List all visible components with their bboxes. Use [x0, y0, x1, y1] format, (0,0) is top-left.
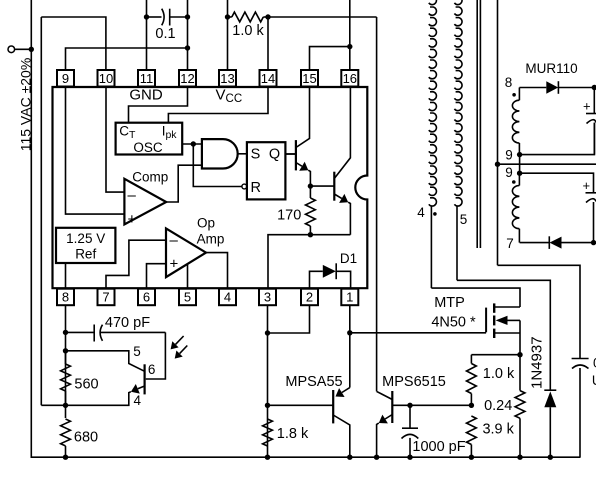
comparator Comp: [124, 179, 166, 225]
wire pin9 to comp+: [66, 86, 125, 214]
svg-text:4: 4: [224, 290, 231, 305]
wire pin4 winding to drain: [431, 288, 520, 307]
wire pin8 column: [63, 305, 68, 418]
resistor 170: [306, 186, 316, 235]
transistor MPS6515 Q5: [374, 391, 410, 460]
wire output common: [498, 163, 596, 165]
svg-text:8: 8: [505, 75, 513, 90]
transistor Q1: [285, 86, 310, 186]
wire pin1 column: [347, 305, 352, 335]
svg-text:13: 13: [220, 71, 234, 86]
svg-text:1N4937: 1N4937: [529, 336, 546, 389]
svg-text:1.25 V: 1.25 V: [66, 231, 105, 246]
svg-text:6: 6: [148, 362, 156, 377]
label MPSA55: [285, 374, 342, 390]
label D1: [340, 251, 357, 266]
svg-text:–: –: [128, 187, 137, 204]
svg-text:5: 5: [184, 290, 191, 305]
svg-text:4N50 *: 4N50 *: [431, 315, 476, 331]
svg-text:10: 10: [99, 71, 113, 86]
wire pin6 to opamp+: [147, 264, 167, 289]
node phase dot pin8: [512, 93, 516, 97]
pin 14: [260, 70, 277, 87]
label Q: [269, 147, 280, 163]
light arrow 1: [171, 336, 184, 349]
light arrow 2: [175, 346, 188, 359]
pin 10: [98, 70, 115, 87]
svg-text:6: 6: [143, 290, 150, 305]
svg-text:Q: Q: [269, 147, 280, 163]
svg-text:GND: GND: [129, 87, 163, 104]
wire output2 bottom: [520, 242, 549, 244]
label 0.1: [155, 26, 175, 42]
svg-text:+: +: [583, 178, 591, 193]
wire right column x377: [376, 17, 378, 391]
label opto 6: [148, 362, 156, 377]
OSC block: [116, 123, 183, 155]
svg-text:1.0 k: 1.0 k: [483, 366, 515, 382]
svg-text:9: 9: [62, 71, 69, 86]
transformer core: [477, 0, 480, 248]
node junction 9 lower: [517, 171, 522, 176]
wire pin13 column: [225, 0, 230, 70]
node input terminal 115 VAC: [8, 46, 34, 53]
transformer primary winding pin4: [429, 0, 437, 288]
pin 6: [138, 289, 155, 306]
label plus C2: [583, 178, 591, 193]
transistor MTP4N50 MOSFET Q3: [486, 303, 520, 354]
wire pin2 hook: [268, 305, 310, 333]
diode 1N4937: [544, 390, 556, 460]
label 7: [506, 236, 514, 251]
pin 8: [57, 289, 74, 306]
label 680: [74, 430, 98, 446]
wire pin12 column: [185, 0, 190, 70]
svg-text:16: 16: [343, 71, 357, 86]
node divider junction: [469, 403, 474, 408]
wire 9 to cap1 bottom: [520, 123, 595, 155]
capacitor 470 pF: [66, 325, 166, 342]
svg-text:Comp: Comp: [132, 169, 168, 184]
wire top to pin10: [41, 17, 106, 70]
svg-text:1.8 k: 1.8 k: [277, 426, 309, 442]
label R: [251, 180, 261, 196]
wire pin14 column: [267, 17, 269, 70]
svg-text:170: 170: [277, 208, 301, 224]
diode output2: [549, 236, 596, 249]
transistor optocoupler Q6: [66, 351, 145, 406]
label 9 lower: [505, 165, 513, 180]
label comp minus: [128, 187, 137, 204]
AND gate U1: [202, 139, 238, 168]
capacitor C3: [572, 359, 589, 458]
pin 16: [341, 70, 358, 87]
diode D1: [310, 263, 351, 288]
wire left rail: [30, 0, 32, 457]
wire comp out to AND: [166, 165, 202, 202]
svg-text:MTP: MTP: [434, 295, 465, 311]
resistor 3.9 k: [467, 416, 477, 460]
label 1.0 k: [232, 23, 264, 39]
wire top rail right: [268, 16, 377, 18]
svg-text:2: 2: [306, 290, 313, 305]
pin 15: [301, 70, 318, 87]
transformer primary winding pin5: [454, 0, 462, 280]
transformer secondary winding 8-9: [512, 88, 519, 155]
capacitor 1000 pF: [402, 405, 419, 460]
wire 9 to cap2 top: [520, 173, 594, 192]
svg-text:4: 4: [134, 393, 142, 408]
pin 1: [341, 289, 358, 306]
label 115 VAC ±20%: [18, 58, 34, 152]
label GND: [129, 87, 163, 104]
transistor Q2: [310, 86, 350, 235]
transistor MPSA55 Q4: [268, 333, 353, 460]
label 1N4937: [529, 336, 546, 389]
svg-text:3.9 k: 3.9 k: [482, 422, 514, 438]
svg-text:S: S: [251, 147, 261, 163]
wire Q out: [285, 153, 296, 155]
svg-text:MUR110: MUR110: [525, 61, 577, 76]
label CT: [119, 123, 136, 141]
svg-text:MPS6515: MPS6515: [382, 374, 446, 390]
resistor 1.8 k: [263, 419, 273, 446]
wire pin5 winding to 1N4937: [457, 280, 550, 390]
svg-text:11: 11: [140, 71, 154, 86]
label 560: [74, 377, 98, 393]
label 470 pF: [105, 315, 150, 331]
resistor 1.0 k (pin13-pin14): [228, 12, 271, 22]
resistor 1.0 k sense: [467, 355, 477, 406]
IC body (uA78S40): [53, 87, 368, 288]
wire secondary common rail: [495, 0, 500, 265]
svg-text:0.1: 0.1: [155, 26, 175, 42]
label opto 4: [134, 393, 142, 408]
label Ref: [75, 247, 96, 262]
label plus C1: [583, 99, 591, 114]
svg-text:0.24: 0.24: [484, 398, 512, 414]
label 8: [505, 75, 513, 90]
svg-text:15: 15: [302, 71, 316, 86]
label 1.8 k: [277, 426, 309, 442]
wire base to divider: [407, 403, 471, 408]
svg-text:Amp: Amp: [197, 232, 225, 247]
label MTP: [434, 295, 465, 311]
svg-text:R: R: [251, 180, 261, 196]
svg-text:7: 7: [506, 236, 514, 251]
label opto 5: [133, 344, 141, 359]
svg-text:4: 4: [417, 205, 425, 220]
svg-text:470 pF: 470 pF: [105, 315, 150, 331]
svg-text:Op: Op: [197, 216, 215, 231]
wire feedback rail: [40, 17, 42, 405]
svg-text:9: 9: [505, 148, 513, 163]
wire AND out: [238, 153, 247, 155]
diode MUR110: [546, 81, 558, 94]
wire 470pF to opto base: [146, 332, 166, 379]
op-amp Op Amp: [166, 228, 206, 277]
label 4N50 *: [431, 315, 476, 331]
wire OSC out: [182, 141, 202, 146]
label 170: [277, 208, 301, 224]
svg-text:–: –: [170, 232, 179, 249]
pin 13: [219, 70, 236, 87]
wire OSC to R: [193, 144, 242, 187]
wire pin15 hook: [310, 44, 353, 70]
svg-text:+: +: [170, 256, 179, 273]
svg-text:1.0 k: 1.0 k: [232, 23, 264, 39]
pin 5: [179, 289, 196, 306]
label C3 partial: [592, 356, 596, 389]
label comp plus: [128, 211, 137, 228]
node phase dot 9 lower: [512, 180, 516, 184]
wire emitter bus to pin3: [268, 232, 350, 289]
node R bubble: [242, 184, 247, 189]
label 1000 pF: [412, 439, 465, 455]
svg-text:5: 5: [133, 344, 141, 359]
svg-text:12: 12: [180, 71, 194, 86]
capacitor 0.1 (pin11-pin12): [147, 9, 188, 26]
svg-text:U: U: [592, 373, 596, 388]
svg-text:8: 8: [62, 290, 69, 305]
transformer secondary winding 9-7: [512, 173, 519, 242]
label 1.0 k sense: [483, 366, 515, 382]
label OSC: [133, 140, 163, 155]
wire pin5 stub: [187, 264, 189, 289]
label 3.9 k: [482, 422, 514, 438]
svg-text:14: 14: [261, 71, 275, 86]
svg-text:7: 7: [102, 290, 109, 305]
label Ipk: [162, 123, 178, 141]
label opamp minus: [170, 232, 179, 249]
wire feedback rail bottom: [41, 404, 65, 406]
pin 7: [98, 289, 115, 306]
wire ref to pin8: [65, 263, 67, 289]
node phase dot pin4: [433, 212, 437, 216]
node junction 9 upper: [517, 152, 522, 157]
wire pin14 to Ipk: [168, 86, 268, 123]
svg-text:+: +: [583, 99, 591, 114]
wire pin3 column: [265, 305, 270, 460]
svg-text:D1: D1: [340, 251, 357, 266]
label opamp plus: [170, 256, 179, 273]
node source junction: [517, 352, 522, 357]
svg-text:680: 680: [74, 430, 98, 446]
svg-text:Ref: Ref: [75, 247, 96, 262]
svg-text:MPSA55: MPSA55: [285, 374, 342, 390]
wire output1 top right: [558, 85, 596, 90]
label 9 upper: [505, 148, 513, 163]
wire opamp out to pin4: [206, 253, 228, 289]
label Op: [197, 216, 215, 231]
wire pin11 column: [144, 0, 149, 70]
wire pin9 hook: [66, 45, 191, 70]
resistor 680: [61, 419, 71, 460]
label Comp: [132, 169, 168, 184]
pin 12: [179, 70, 196, 87]
capacitor C1 output: [586, 88, 596, 155]
SR latch: [247, 142, 286, 199]
pin 2: [301, 289, 318, 306]
svg-text:9: 9: [505, 165, 513, 180]
label MPS6515: [382, 374, 446, 390]
wire pin10 to comp-: [106, 86, 124, 192]
label 5: [460, 212, 468, 227]
wire 9-9 tie: [519, 155, 521, 174]
wire source to 1.0k: [471, 354, 520, 356]
label 4: [417, 205, 425, 220]
label VCC: [216, 87, 243, 106]
label S: [251, 147, 261, 163]
node pin3 junction: [265, 330, 270, 335]
resistor 0.24: [515, 355, 525, 460]
wire gate: [350, 332, 486, 334]
pin 4: [219, 289, 236, 306]
svg-text:3: 3: [264, 290, 271, 305]
node Q2 base junction: [308, 183, 313, 188]
wire bottom rail: [31, 456, 581, 458]
pin 9: [57, 70, 74, 87]
svg-text:560: 560: [74, 377, 98, 393]
label 0.24: [484, 398, 512, 414]
svg-text:5: 5: [460, 212, 468, 227]
svg-text:1000 pF: 1000 pF: [412, 439, 465, 455]
wire rail to cap3: [498, 265, 581, 358]
capacitor C2 output: [586, 193, 596, 243]
resistor 560: [61, 351, 71, 406]
svg-text:OSC: OSC: [133, 140, 163, 155]
label 1.25 V: [66, 231, 105, 246]
label MUR110: [525, 61, 577, 76]
voltage reference 1.25 V Ref: [56, 228, 115, 263]
pin 11: [138, 70, 155, 87]
pin 3: [259, 289, 276, 306]
svg-text:+: +: [128, 211, 137, 228]
svg-text:1: 1: [346, 290, 353, 305]
wire output1 top: [519, 87, 546, 89]
wire pin12 to CT: [129, 86, 188, 123]
wire pin7 to opamp-: [106, 240, 166, 289]
label Amp: [197, 232, 225, 247]
wire pin16 column: [349, 0, 351, 70]
